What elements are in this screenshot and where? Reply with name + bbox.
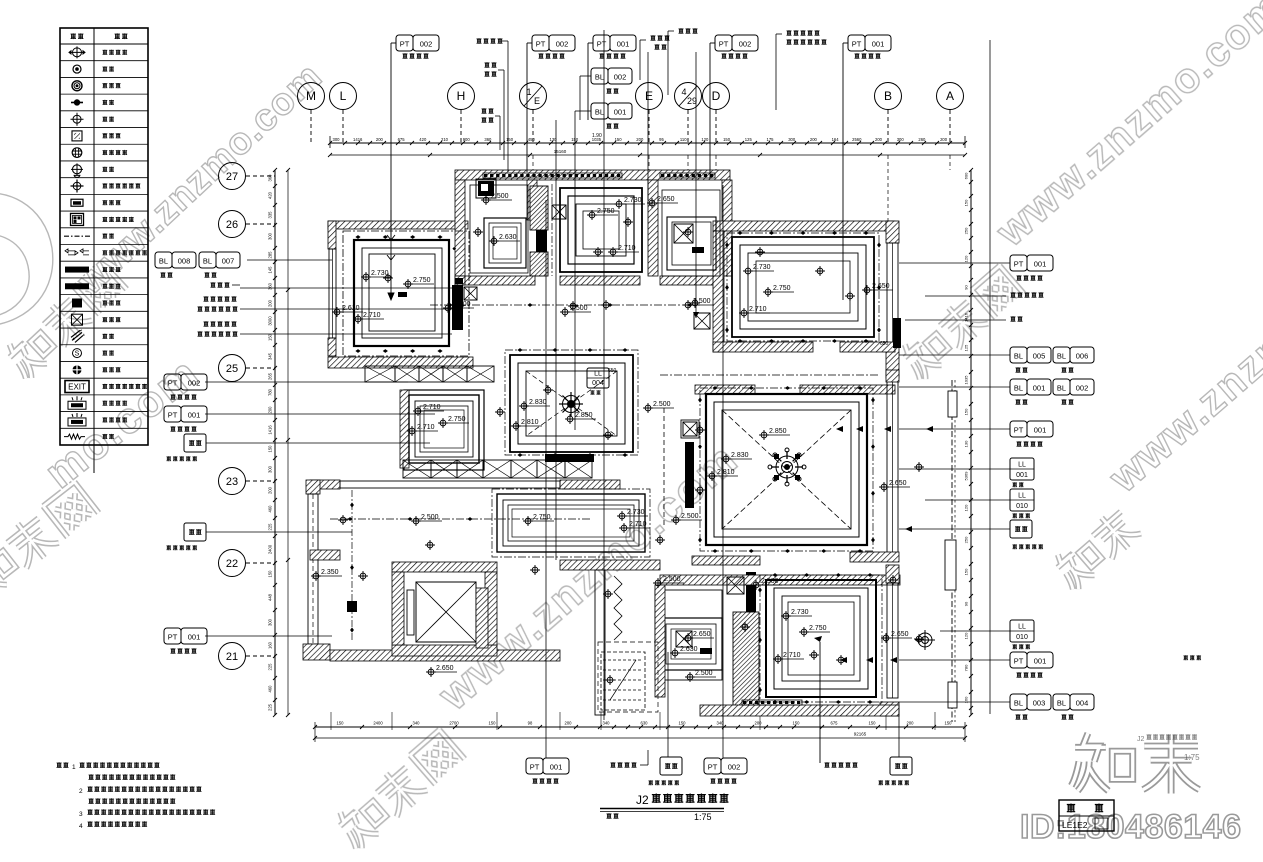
svg-text:450: 450 — [528, 137, 536, 142]
room bath top-left interior — [470, 185, 528, 273]
wall mid-left room — [404, 390, 484, 470]
svg-text:25: 25 — [226, 363, 238, 375]
svg-text:1035: 1035 — [964, 375, 969, 385]
svg-text:2.730: 2.730 — [624, 197, 642, 204]
svg-text:150: 150 — [964, 568, 969, 575]
svg-text:2.630: 2.630 — [499, 234, 517, 241]
dimension line top — [330, 142, 965, 144]
svg-text:001: 001 — [872, 40, 885, 49]
svg-text:2: 2 — [79, 788, 83, 795]
callout lamp head bottom — [824, 762, 829, 767]
svg-text:2.750: 2.750 — [448, 416, 466, 423]
wall top-right block right — [886, 221, 899, 243]
room top-left nested ceiling — [354, 240, 449, 346]
notes bottom-left — [56, 762, 61, 768]
callout vent bottom — [610, 762, 615, 767]
stairs bottom-center — [601, 652, 645, 710]
callout access left — [210, 282, 215, 287]
svg-text:1: 1 — [72, 764, 76, 771]
bottom bath walls thin — [655, 590, 722, 680]
svg-text:2.650: 2.650 — [693, 631, 711, 638]
svg-text:PT: PT — [597, 40, 607, 49]
svg-text:PT: PT — [530, 763, 540, 772]
svg-text:285: 285 — [268, 251, 273, 259]
svg-text:LL: LL — [1018, 493, 1026, 500]
label LL010 right — [1010, 489, 1034, 511]
svg-text:2.750: 2.750 — [773, 285, 791, 292]
legend descriptions — [102, 50, 107, 55]
svg-text:210: 210 — [441, 137, 449, 142]
elevator X box — [416, 582, 476, 642]
terrace bottom wall left — [310, 550, 340, 560]
svg-text:200: 200 — [268, 299, 273, 307]
living diagonals — [722, 410, 851, 529]
svg-text:300: 300 — [788, 137, 796, 142]
room top-middle dash guides — [551, 184, 553, 276]
svg-text:002: 002 — [556, 40, 569, 49]
svg-text:002: 002 — [728, 763, 741, 772]
wall mid right horizontal — [850, 552, 899, 562]
terrace vent small — [347, 601, 357, 612]
wardrobe X strip corridor lower — [403, 460, 431, 478]
labels BL001 BL002 right — [1010, 379, 1027, 395]
svg-text:PT: PT — [168, 633, 178, 642]
room bottom-right nested ceiling — [766, 580, 876, 697]
stairs dashed big outline — [598, 642, 658, 712]
bottom-center block walls — [560, 560, 660, 570]
svg-text:4: 4 — [681, 87, 686, 97]
svg-text:27: 27 — [226, 171, 238, 183]
living dash guide — [700, 388, 873, 551]
svg-text:420: 420 — [419, 137, 427, 142]
side note right — [1183, 655, 1188, 660]
svg-text:001: 001 — [188, 633, 201, 642]
wall light right1 — [915, 630, 935, 650]
svg-text:008: 008 — [178, 257, 191, 266]
svg-text:3000: 3000 — [268, 316, 273, 326]
svg-text:002: 002 — [1076, 384, 1089, 393]
svg-text:150: 150 — [506, 137, 514, 142]
svg-text:2.710: 2.710 — [417, 424, 435, 431]
svg-text:150: 150 — [945, 721, 953, 726]
svg-text:21: 21 — [226, 651, 238, 663]
label PT002 top-mid with leader — [526, 43, 528, 172]
svg-text:630: 630 — [641, 721, 649, 726]
svg-text:BL: BL — [159, 257, 168, 266]
svg-text:BL: BL — [595, 73, 604, 82]
svg-text:J2: J2 — [636, 793, 649, 807]
downlights — [383, 273, 393, 283]
svg-text:H: H — [457, 89, 466, 103]
svg-text:BL: BL — [1057, 699, 1066, 708]
svg-text:780: 780 — [268, 388, 273, 396]
label ruby white bottom2 — [898, 706, 900, 757]
bottom-right room bottom wall — [700, 705, 899, 716]
label LL001 right — [1010, 458, 1034, 480]
svg-text:1.90: 1.90 — [592, 133, 602, 139]
room center diagonals — [526, 371, 617, 436]
svg-text:2.610: 2.610 — [342, 305, 360, 312]
svg-text:90: 90 — [964, 601, 969, 606]
svg-text:2.500: 2.500 — [681, 513, 699, 520]
svg-text:1:75: 1:75 — [694, 812, 712, 822]
svg-text:2.650: 2.650 — [872, 283, 890, 290]
svg-text:200: 200 — [907, 721, 915, 726]
grid extension dashes — [532, 155, 534, 170]
svg-text:160: 160 — [268, 641, 273, 649]
svg-text:2.730: 2.730 — [627, 509, 645, 516]
svg-text:001: 001 — [1033, 384, 1046, 393]
label LL010 right low — [1010, 620, 1034, 642]
AC duct black bar mid-top — [530, 186, 548, 230]
callout AC side vent left — [203, 296, 208, 301]
svg-text:2.500: 2.500 — [653, 401, 671, 408]
callout vent 2 top — [678, 28, 683, 33]
svg-text:2.750: 2.750 — [533, 514, 551, 521]
svg-text:200: 200 — [268, 406, 273, 414]
svg-text:2.710: 2.710 — [618, 245, 636, 252]
svg-text:150: 150 — [489, 721, 497, 726]
svg-text:300: 300 — [897, 137, 905, 142]
bottom extension lines — [330, 712, 332, 730]
elevator shaft — [330, 650, 560, 661]
wall bath row mid vertical — [648, 180, 658, 276]
svg-text:001: 001 — [614, 108, 627, 117]
xbox left of living — [681, 420, 699, 438]
wall between baths vertical — [527, 180, 537, 220]
legend table — [60, 28, 148, 445]
curtain track right — [951, 380, 953, 722]
svg-text:150: 150 — [869, 721, 877, 726]
svg-text:150: 150 — [615, 137, 623, 142]
svg-text:650: 650 — [608, 368, 617, 374]
labels BL008 BL007 left — [155, 252, 172, 268]
svg-text:300: 300 — [333, 137, 341, 142]
svg-text:150: 150 — [268, 570, 273, 578]
terrace dash-dot guides — [492, 489, 650, 557]
label PT001 left — [164, 406, 181, 422]
svg-text:2.650: 2.650 — [891, 631, 909, 638]
wall bath row bottom — [455, 276, 535, 285]
watermark partial glyph left edge — [0, 193, 53, 326]
svg-text:145: 145 — [268, 266, 273, 274]
label PT001 top with leader — [587, 43, 589, 120]
svg-text:ID:180486146: ID:180486146 — [1020, 808, 1242, 846]
labels BL002 BL001 right-top — [591, 68, 608, 84]
svg-text:2.710: 2.710 — [363, 312, 381, 319]
vent black bar right of TL room — [452, 285, 463, 330]
svg-text:2.850: 2.850 — [575, 412, 593, 419]
room top-middle nested ceiling — [560, 188, 642, 272]
callout AC return left — [203, 321, 208, 326]
svg-text:150: 150 — [723, 137, 731, 142]
svg-text:150: 150 — [964, 199, 969, 206]
svg-text:D: D — [712, 89, 721, 103]
svg-text:S: S — [75, 351, 80, 358]
grid bubbles top — [298, 83, 325, 110]
svg-text:225: 225 — [268, 663, 273, 671]
svg-text:001: 001 — [1016, 472, 1028, 479]
terrace top wall — [310, 480, 340, 489]
chandelier center room — [559, 392, 583, 416]
watermark band center-bottom — [331, 728, 466, 853]
svg-text:5369: 5369 — [964, 471, 969, 481]
svg-text:780: 780 — [964, 664, 969, 671]
svg-text:250: 250 — [964, 227, 969, 234]
svg-text:L: L — [340, 89, 347, 103]
corridor wall left segment — [455, 276, 465, 285]
bottom-left room bottom walls small — [476, 588, 488, 648]
black bar right wall — [893, 318, 901, 348]
svg-text:PT: PT — [719, 40, 729, 49]
svg-text:E: E — [534, 96, 540, 106]
svg-text:98: 98 — [528, 721, 533, 726]
svg-text:2.750: 2.750 — [597, 208, 615, 215]
dimension line top second tier — [330, 154, 965, 156]
svg-text:2.710: 2.710 — [423, 404, 441, 411]
svg-text:001: 001 — [1034, 657, 1047, 666]
svg-text:600: 600 — [964, 172, 969, 179]
svg-text:3: 3 — [79, 811, 83, 818]
label PT002 left — [164, 374, 181, 390]
wall bath row right vertical — [722, 180, 732, 276]
svg-text:PT: PT — [1014, 657, 1024, 666]
wall stairs-bath vertical — [655, 585, 665, 697]
svg-text:2.750: 2.750 — [809, 625, 827, 632]
callout wall lamp right — [1010, 316, 1015, 321]
room living nested ceiling — [706, 394, 867, 545]
gray small title right — [1137, 734, 1200, 762]
svg-text:1416: 1416 — [964, 312, 969, 322]
svg-text:A: A — [946, 89, 954, 103]
center room dash guide — [505, 350, 638, 455]
svg-text:2.630: 2.630 — [680, 646, 698, 653]
xbox corridor left — [464, 287, 477, 300]
svg-text:2700: 2700 — [449, 721, 459, 726]
elevation labels — [361, 272, 371, 282]
svg-text:M: M — [306, 89, 316, 103]
wall top-right block left — [713, 231, 724, 352]
callout twin wall lamp right — [1010, 292, 1015, 297]
svg-text:2.350: 2.350 — [321, 569, 339, 576]
long leader verticals — [603, 30, 605, 720]
label PT001 right2 — [1010, 421, 1027, 437]
svg-text:BL: BL — [1014, 384, 1023, 393]
grid bubbles left — [219, 163, 246, 190]
svg-text:300: 300 — [268, 465, 273, 473]
svg-text:001: 001 — [617, 40, 630, 49]
terrace left wall — [306, 480, 320, 494]
callout paint vent top — [476, 38, 481, 43]
svg-text:2.730: 2.730 — [791, 609, 809, 616]
svg-text:22: 22 — [226, 558, 238, 570]
label ruby white bottom1 — [667, 652, 669, 757]
label PT001 bottom — [545, 200, 547, 758]
room top-left dash-dot guide — [343, 231, 469, 356]
dimension line right — [970, 170, 972, 715]
room bath top-right interior — [662, 190, 720, 276]
svg-text:2.500: 2.500 — [663, 576, 681, 583]
callout AC vent top-right — [786, 30, 791, 35]
xbox mid access — [552, 205, 566, 219]
center room bottom black bar — [545, 454, 594, 462]
wall bath row left vertical — [455, 180, 465, 276]
label LL004 in plan — [587, 368, 609, 388]
dimension line left — [274, 170, 276, 715]
svg-text:460: 460 — [268, 505, 273, 513]
watermark band mid-left — [0, 480, 100, 603]
svg-text:BL: BL — [1057, 352, 1066, 361]
svg-text:4: 4 — [79, 823, 83, 830]
svg-text:1416: 1416 — [268, 425, 273, 435]
svg-text:448: 448 — [268, 593, 273, 601]
svg-text:200: 200 — [636, 137, 644, 142]
svg-text:360: 360 — [268, 282, 273, 290]
svg-text:110: 110 — [680, 137, 687, 142]
TL room center mark — [398, 292, 407, 297]
svg-text:005: 005 — [1033, 352, 1046, 361]
svg-text:200: 200 — [810, 137, 818, 142]
callout damp-proof lamp — [484, 62, 489, 67]
svg-text:150: 150 — [268, 333, 273, 341]
svg-text:001: 001 — [188, 411, 201, 420]
svg-text:120: 120 — [964, 632, 969, 639]
dimension line bottom — [315, 726, 965, 728]
wall top-left room left — [328, 221, 336, 249]
svg-text:150: 150 — [679, 721, 687, 726]
svg-text:300: 300 — [268, 618, 273, 626]
corridor dashed line left of living — [663, 408, 665, 525]
room top-right nested ceiling — [732, 237, 874, 337]
svg-text:360: 360 — [484, 137, 492, 142]
svg-text:2.810: 2.810 — [521, 419, 539, 426]
svg-text:2.650: 2.650 — [657, 196, 675, 203]
wall top-left room top — [328, 221, 468, 229]
room mid-left nested ceiling — [409, 395, 479, 463]
svg-text:345: 345 — [268, 352, 273, 360]
svg-text:PT: PT — [400, 40, 410, 49]
svg-text:2.710: 2.710 — [629, 521, 647, 528]
label PT002 top-right with leader — [709, 43, 711, 178]
svg-text:B: B — [884, 89, 892, 103]
svg-text:225: 225 — [268, 523, 273, 531]
svg-text:2400: 2400 — [373, 721, 383, 726]
svg-text:2.500: 2.500 — [695, 670, 713, 677]
bottom-right room top wall — [660, 575, 900, 585]
label ruby white right — [1010, 520, 1032, 538]
svg-text:LL: LL — [1018, 624, 1026, 631]
svg-text:004: 004 — [592, 380, 604, 387]
watermark band top-right — [896, 264, 1025, 384]
svg-text:2560: 2560 — [852, 137, 862, 142]
svg-text:2.730: 2.730 — [753, 264, 771, 271]
svg-text:PT: PT — [536, 40, 546, 49]
svg-text:120: 120 — [964, 255, 969, 262]
svg-text:002: 002 — [188, 379, 201, 388]
curtain zigzag bottom-left of stairs — [614, 576, 622, 640]
svg-text:BL: BL — [595, 108, 604, 117]
svg-text:29: 29 — [687, 96, 697, 106]
svg-text:675: 675 — [831, 721, 839, 726]
svg-text:175: 175 — [767, 137, 775, 142]
wardrobe X strip corridor upper — [365, 366, 395, 382]
svg-text:650: 650 — [880, 341, 889, 347]
label ruby white left — [184, 434, 206, 452]
svg-text:PT: PT — [1014, 260, 1024, 269]
svg-text:150: 150 — [964, 408, 969, 415]
svg-text:001: 001 — [1034, 260, 1047, 269]
svg-text:PT: PT — [852, 40, 862, 49]
xbox bottom corridor — [727, 577, 744, 594]
leader arrowheads right — [836, 426, 843, 432]
svg-text:PT: PT — [1014, 426, 1024, 435]
svg-text:2.830: 2.830 — [529, 399, 547, 406]
svg-text:675: 675 — [398, 137, 406, 142]
label PT002 bottom — [722, 185, 724, 758]
svg-text:2.810: 2.810 — [717, 469, 735, 476]
svg-text:120: 120 — [701, 137, 709, 142]
hatched shaft bottom-center — [733, 612, 759, 707]
callout vent mid top — [650, 35, 655, 40]
bath light fixture black square — [478, 181, 494, 196]
svg-text:002: 002 — [739, 40, 752, 49]
svg-text:340: 340 — [603, 721, 611, 726]
svg-text:200: 200 — [376, 137, 384, 142]
wall top-right block top — [713, 221, 895, 231]
bottom-right dash guide — [760, 575, 882, 702]
svg-text:BL: BL — [1014, 352, 1023, 361]
xbox top-right bath — [674, 224, 693, 243]
cove dotted strip top — [483, 173, 622, 178]
svg-text:006: 006 — [1076, 352, 1089, 361]
bottom-right mini table — [1059, 800, 1114, 831]
svg-text:2.500: 2.500 — [491, 193, 509, 200]
wall top-right block bottom — [713, 342, 813, 352]
svg-text:125: 125 — [964, 344, 969, 351]
legend symbols — [69, 46, 85, 58]
wall top-left room bottom — [328, 357, 473, 368]
svg-text:2.830: 2.830 — [731, 452, 749, 459]
svg-text:EXIT: EXIT — [68, 383, 86, 392]
svg-text:265: 265 — [268, 372, 273, 380]
svg-text:120: 120 — [964, 504, 969, 511]
svg-text:335: 335 — [268, 211, 273, 219]
svg-text:2.710: 2.710 — [749, 306, 767, 313]
svg-text:2.500: 2.500 — [421, 514, 439, 521]
right leader spine — [989, 40, 991, 714]
svg-text:J2: J2 — [1137, 736, 1145, 743]
svg-text:260: 260 — [918, 137, 926, 142]
svg-text:460: 460 — [268, 685, 273, 693]
svg-text:002: 002 — [420, 40, 433, 49]
svg-text:001: 001 — [1034, 426, 1047, 435]
bottom-right room right wall — [886, 565, 899, 583]
AC vent bar left of living — [685, 442, 694, 508]
svg-text:225: 225 — [268, 703, 273, 711]
svg-text:250: 250 — [964, 536, 969, 543]
svg-text:E: E — [645, 89, 653, 103]
wall top of bathroom row — [455, 170, 730, 180]
svg-text:200: 200 — [755, 721, 763, 726]
vent bar bottom-center — [746, 572, 756, 612]
bottom dim extension lines — [314, 722, 316, 742]
watermark band right-middle — [1049, 504, 1143, 593]
label PT001 left low — [164, 628, 181, 644]
svg-text:2.750: 2.750 — [413, 277, 431, 284]
svg-text:420: 420 — [268, 191, 273, 199]
living room top wall — [695, 385, 755, 394]
svg-text:130: 130 — [964, 440, 969, 447]
